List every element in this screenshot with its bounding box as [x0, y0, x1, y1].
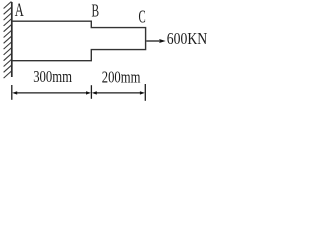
svg-text:A: A [15, 1, 24, 21]
svg-text:200mm: 200mm [102, 68, 141, 87]
svg-text:600KN: 600KN [167, 29, 207, 48]
svg-text:C: C [139, 7, 146, 27]
svg-text:B: B [92, 1, 100, 21]
svg-text:300mm: 300mm [33, 67, 72, 86]
